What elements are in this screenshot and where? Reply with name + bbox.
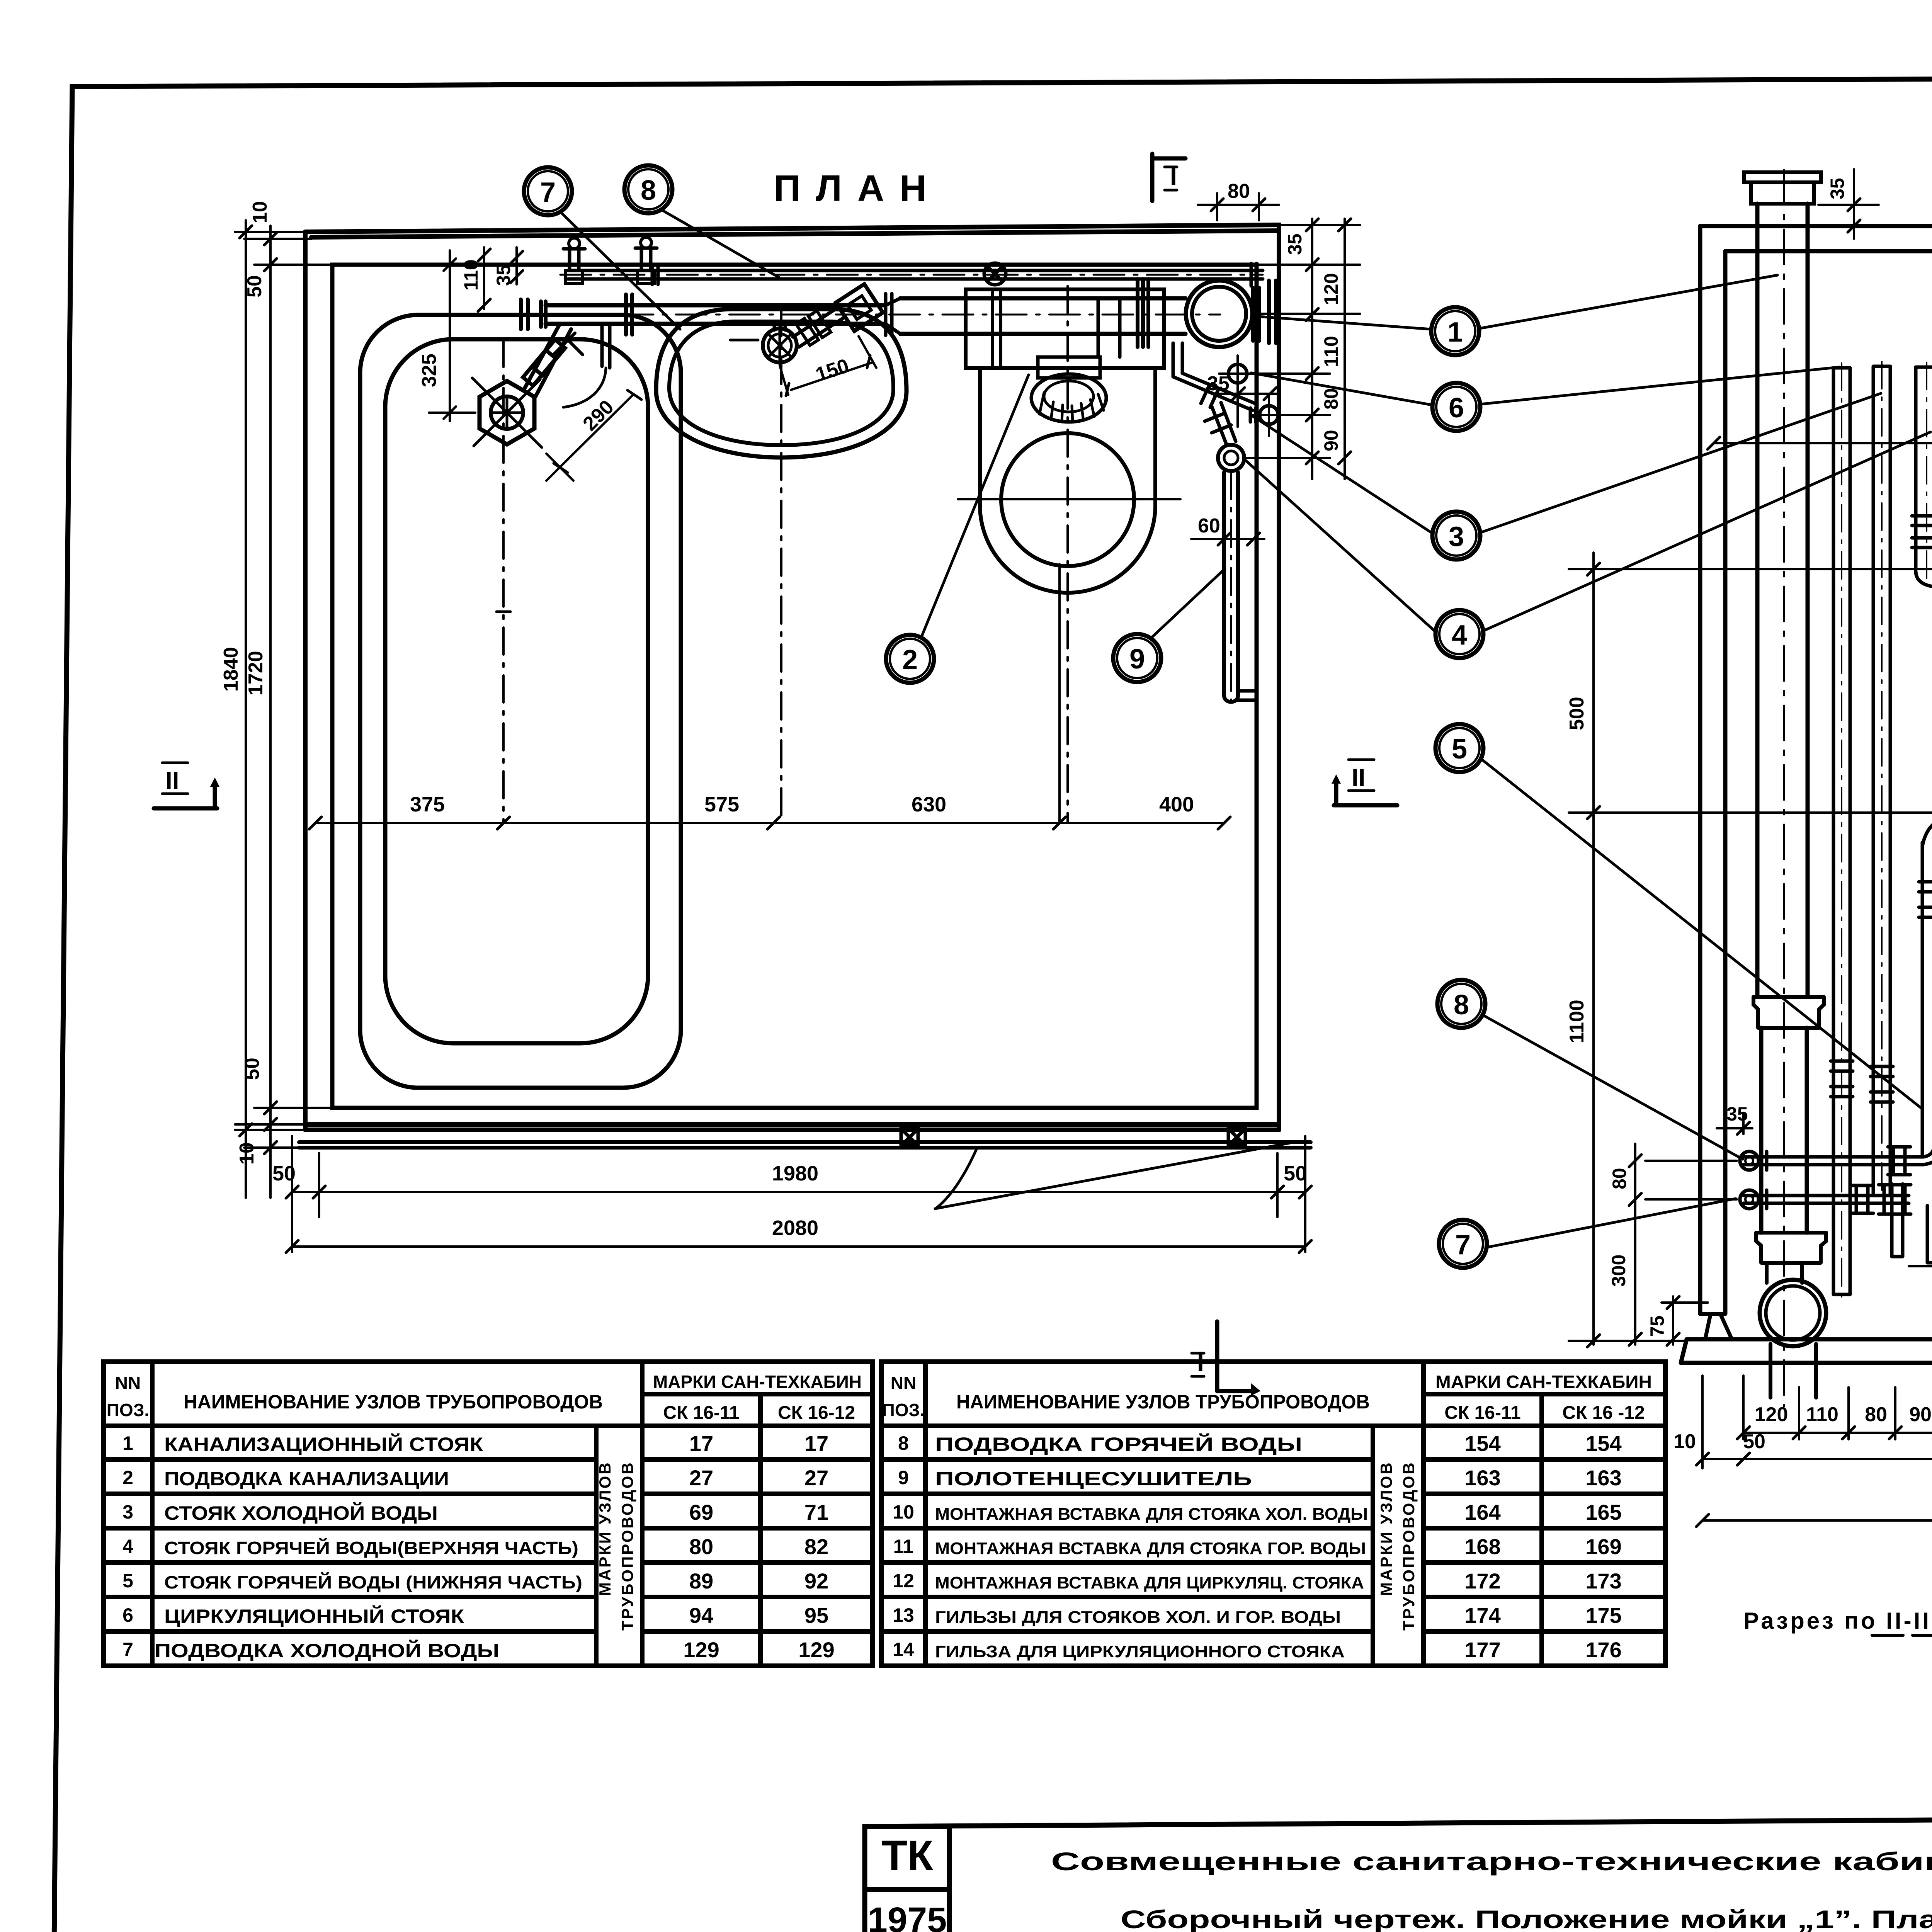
- plan bottom dim 2080: [292, 1245, 1305, 1248]
- svg-text:8: 8: [641, 175, 656, 206]
- stack below floor: [1770, 1344, 1816, 1398]
- svg-text:177: 177: [1464, 1638, 1500, 1662]
- callout circle 5: [1435, 724, 1483, 772]
- svg-text:12: 12: [893, 1570, 914, 1592]
- svg-text:17: 17: [804, 1431, 828, 1456]
- plan dim column right: extensions: [1245, 225, 1360, 458]
- sink mixer diagonal: [793, 308, 844, 347]
- svg-text:14: 14: [893, 1639, 914, 1660]
- svg-text:Совмещенные санитарно-техниче: Совмещенные санитарно-технические кабины…: [1051, 1847, 1932, 1876]
- lower supply pipe A: [1743, 1157, 1923, 1165]
- section bottom dims row3: [1702, 1519, 1932, 1522]
- canalization branch pipe (second run): [546, 305, 886, 324]
- section bottom dims row2: [1702, 1349, 1932, 1468]
- svg-text:МОНТАЖНАЯ ВСТАВКА ДЛЯ СТОЯКА Г: МОНТАЖНАЯ ВСТАВКА ДЛЯ СТОЯКА ГОР. ВОДЫ: [935, 1539, 1366, 1558]
- svg-text:II: II: [165, 767, 179, 794]
- riser connection bend (plan right): [1173, 343, 1182, 377]
- riser 3 (hot water): [1916, 367, 1932, 567]
- tall socket before stack: [1138, 279, 1148, 347]
- svg-text:50: 50: [272, 1162, 296, 1185]
- svg-text:ТРУБОПРОВОДОВ: ТРУБОПРОВОДОВ: [1400, 1461, 1418, 1631]
- stack lower bell: [1756, 1233, 1826, 1263]
- svg-text:90: 90: [1909, 1403, 1932, 1426]
- pipe to hot riser: [1173, 373, 1255, 410]
- svg-text:173: 173: [1585, 1569, 1621, 1593]
- callout circle 6: [1432, 383, 1480, 431]
- riser cross circle 1: [1228, 364, 1247, 383]
- sleeve below pipe B: [1892, 1184, 1903, 1257]
- canalization stack section: [1744, 172, 1821, 182]
- svg-text:80: 80: [1320, 388, 1342, 410]
- toilet bowl body: [980, 368, 1155, 593]
- plan anchor mark right: [1228, 1129, 1245, 1146]
- svg-text:71: 71: [804, 1500, 828, 1524]
- svg-text:4: 4: [122, 1536, 133, 1557]
- left wall base: [1700, 1314, 1732, 1339]
- svg-text:1: 1: [122, 1432, 133, 1454]
- callout circle 1: [1431, 307, 1479, 355]
- svg-text:50: 50: [241, 1058, 264, 1080]
- extensions top left: [235, 232, 332, 265]
- svg-text:ПОЛОТЕНЦЕСУШИТЕЛЬ: ПОЛОТЕНЦЕСУШИТЕЛЬ: [935, 1468, 1252, 1490]
- table headers left: [107, 1372, 862, 1631]
- svg-text:110: 110: [1320, 336, 1342, 367]
- sink outer: [656, 309, 906, 457]
- plan floor slab lines below cabin: [299, 1142, 1311, 1148]
- svg-text:СТОЯК ГОРЯЧЕЙ ВОДЫ(ВЕРХНЯЯ ЧАС: СТОЯК ГОРЯЧЕЙ ВОДЫ(ВЕРХНЯЯ ЧАСТЬ): [164, 1538, 578, 1558]
- svg-text:92: 92: [804, 1569, 828, 1593]
- svg-text:7: 7: [540, 177, 556, 208]
- bath mixer diagonal pipe: [524, 325, 571, 396]
- svg-text:120: 120: [1320, 273, 1342, 305]
- svg-text:ТК: ТК: [881, 1832, 934, 1879]
- svg-text:80: 80: [1609, 1168, 1630, 1189]
- riser 2 (circulation): [1873, 366, 1890, 1196]
- svg-text:1: 1: [1447, 317, 1463, 348]
- svg-text:2: 2: [902, 645, 918, 675]
- svg-text:МАРКИ УЗЛОВ: МАРКИ УЗЛОВ: [1377, 1461, 1395, 1596]
- dim 110 top-left: [483, 247, 485, 309]
- callout circle 9 plan: [1113, 634, 1161, 682]
- section bottom dims row1: [1743, 1376, 1932, 1439]
- lower supply pipe B: [1743, 1196, 1909, 1203]
- title block TK box: [865, 1827, 949, 1889]
- riser 3 lower part: [1922, 842, 1932, 1157]
- svg-text:129: 129: [683, 1638, 719, 1662]
- bathtub centerline: [502, 340, 505, 823]
- svg-text:163: 163: [1464, 1466, 1500, 1490]
- svg-text:NN: NN: [115, 1373, 141, 1393]
- left dim labels: [220, 201, 271, 1165]
- floor slab: [1681, 1339, 1932, 1363]
- svg-text:МАРКИ САН-ТЕХКАБИН: МАРКИ САН-ТЕХКАБИН: [1435, 1372, 1652, 1392]
- svg-text:165: 165: [1585, 1500, 1621, 1524]
- svg-text:300: 300: [1608, 1255, 1629, 1287]
- callout circle 3: [1432, 512, 1480, 560]
- svg-text:90: 90: [1320, 430, 1342, 451]
- svg-text:NN: NN: [891, 1373, 916, 1393]
- title block outline: [865, 1816, 1932, 1827]
- svg-text:7: 7: [122, 1639, 133, 1660]
- svg-text:МОНТАЖНАЯ ВСТАВКА ДЛЯ ЦИРКУЛЯЦ: МОНТАЖНАЯ ВСТАВКА ДЛЯ ЦИРКУЛЯЦ. СТОЯКА: [935, 1573, 1364, 1592]
- svg-text:ТРУБОПРОВОДОВ: ТРУБОПРОВОДОВ: [618, 1461, 636, 1631]
- dim 325: [449, 250, 451, 421]
- svg-text:ПОДВОДКА КАНАЛИЗАЦИИ: ПОДВОДКА КАНАЛИЗАЦИИ: [164, 1468, 449, 1490]
- svg-text:168: 168: [1464, 1534, 1500, 1559]
- svg-text:1840: 1840: [220, 647, 242, 692]
- taper bells before toilet: [886, 294, 900, 335]
- svg-text:11: 11: [893, 1536, 914, 1557]
- svg-text:120: 120: [1755, 1403, 1788, 1426]
- svg-text:35: 35: [1207, 372, 1230, 395]
- svg-text:110: 110: [460, 259, 482, 291]
- dim 500 / 1100 line: [1592, 553, 1595, 1345]
- callout circle 2: [886, 635, 934, 683]
- svg-text:КАНАЛИЗАЦИОННЫЙ СТОЯК: КАНАЛИЗАЦИОННЫЙ СТОЯК: [164, 1433, 483, 1455]
- riser 1 (cold water): [1833, 368, 1850, 1294]
- svg-text:4: 4: [1452, 620, 1467, 651]
- plan anchor mark left: [901, 1129, 918, 1146]
- svg-text:ЦИРКУЛЯЦИОННЫЙ СТОЯК: ЦИРКУЛЯЦИОННЫЙ СТОЯК: [164, 1605, 464, 1627]
- riser cross circle 2: [1250, 408, 1256, 422]
- toilet tank: [966, 289, 1164, 368]
- plan bottom dim 1980: [292, 1191, 1305, 1193]
- stack drain ring: [1760, 1280, 1826, 1346]
- svg-text:9: 9: [898, 1467, 909, 1488]
- note II underlines: [1872, 1634, 1932, 1637]
- svg-text:69: 69: [689, 1500, 713, 1524]
- svg-text:СК 16 -12: СК 16 -12: [1562, 1403, 1645, 1423]
- svg-text:17: 17: [689, 1431, 713, 1456]
- plan bottom dim line (fixtures): [315, 822, 1224, 824]
- table rows right: [893, 1431, 1622, 1662]
- svg-text:60: 60: [1198, 515, 1220, 537]
- svg-text:СТОЯК ГОРЯЧЕЙ ВОДЫ (НИЖНЯЯ ЧАС: СТОЯК ГОРЯЧЕЙ ВОДЫ (НИЖНЯЯ ЧАСТЬ): [164, 1572, 582, 1592]
- callout circle 7 section: [1439, 1220, 1487, 1268]
- svg-text:80: 80: [1228, 180, 1250, 202]
- plan cabin inner wall: [332, 265, 1257, 1108]
- bath mixer hex nut: [480, 381, 534, 444]
- svg-text:35: 35: [1726, 1103, 1748, 1125]
- hot water pipe run (top): [568, 270, 1263, 279]
- svg-text:27: 27: [804, 1466, 828, 1490]
- svg-text:6: 6: [1449, 393, 1464, 423]
- svg-text:МАРКИ САН-ТЕХКАБИН: МАРКИ САН-ТЕХКАБИН: [653, 1372, 862, 1392]
- svg-text:3: 3: [122, 1501, 133, 1523]
- plan dim line right inner: [1311, 219, 1313, 479]
- stack flanges right: [1253, 281, 1276, 343]
- svg-text:35: 35: [493, 264, 514, 286]
- svg-text:89: 89: [689, 1569, 713, 1593]
- elbow to towel pipe: [1212, 403, 1236, 444]
- bathtub inner bowl: [385, 339, 648, 1043]
- towel rail elbows: [1916, 567, 1932, 587]
- svg-text:500: 500: [1566, 697, 1588, 730]
- toilet cross lines: [958, 498, 1180, 500]
- bathtub center mark: [497, 611, 510, 613]
- dim 80 / 300: [1634, 1144, 1636, 1345]
- toilet flush drop: [1098, 298, 1120, 357]
- section mark I top: [1152, 154, 1185, 201]
- svg-text:1975: 1975: [868, 1900, 947, 1932]
- plan left dim lines: [245, 220, 247, 1198]
- svg-text:172: 172: [1464, 1569, 1500, 1593]
- section room walls: [1700, 226, 1932, 1314]
- svg-text:10: 10: [1673, 1430, 1696, 1453]
- plan break line under cabin: [935, 1143, 1290, 1209]
- svg-text:375: 375: [410, 793, 445, 816]
- svg-text:400: 400: [1159, 793, 1194, 816]
- towel rail pipe (plan): [1224, 472, 1238, 702]
- svg-text:27: 27: [689, 1466, 713, 1490]
- svg-text:169: 169: [1585, 1534, 1621, 1559]
- callout circle 4: [1435, 610, 1483, 658]
- toilet bowl rim: [1001, 433, 1134, 566]
- svg-text:325: 325: [418, 354, 440, 387]
- svg-text:ПОЗ.: ПОЗ.: [107, 1400, 149, 1420]
- svg-text:СК 16-11: СК 16-11: [1444, 1403, 1520, 1423]
- svg-text:82: 82: [804, 1534, 828, 1559]
- svg-text:13: 13: [893, 1604, 914, 1626]
- svg-text:1720: 1720: [245, 651, 267, 696]
- svg-text:5: 5: [122, 1570, 133, 1592]
- svg-text:ПОЗ.: ПОЗ.: [882, 1400, 925, 1420]
- svg-text:10: 10: [249, 201, 271, 223]
- sink trap tee: [774, 324, 785, 330]
- bath filler stub: [602, 324, 610, 368]
- plan cabin outer wall: [305, 225, 1279, 1130]
- svg-text:ПОДВОДКА ХОЛОДНОЙ ВОДЫ: ПОДВОДКА ХОЛОДНОЙ ВОДЫ: [155, 1639, 499, 1662]
- svg-text:9: 9: [1129, 644, 1145, 675]
- svg-text:ПОДВОДКА ГОРЯЧЕЙ ВОДЫ: ПОДВОДКА ГОРЯЧЕЙ ВОДЫ: [935, 1433, 1302, 1455]
- svg-text:154: 154: [1464, 1431, 1500, 1456]
- sink mixer body: [836, 284, 883, 331]
- left table frame: [104, 1362, 872, 1666]
- joints on branch pipe: [626, 294, 632, 335]
- stack bell joint: [1753, 997, 1824, 1028]
- section mark I bottom: [1217, 1321, 1254, 1391]
- svg-text:МОНТАЖНАЯ ВСТАВКА ДЛЯ СТОЯКА Х: МОНТАЖНАЯ ВСТАВКА ДЛЯ СТОЯКА ХОЛ. ВОДЫ: [935, 1505, 1368, 1524]
- table headers right: [882, 1372, 1652, 1631]
- svg-text:ГИЛЬЗА ДЛЯ ЦИРКУЛЯЦИОННОГО СТО: ГИЛЬЗА ДЛЯ ЦИРКУЛЯЦИОННОГО СТОЯКА: [935, 1642, 1345, 1661]
- slashes on left dims: [240, 226, 277, 1154]
- svg-text:94: 94: [689, 1603, 713, 1628]
- svg-text:154: 154: [1585, 1431, 1621, 1456]
- svg-text:10: 10: [236, 1142, 258, 1165]
- callout circle 7: [524, 167, 572, 215]
- svg-text:1100: 1100: [1566, 1000, 1588, 1043]
- svg-text:СК 16-12: СК 16-12: [778, 1403, 855, 1423]
- dim 950: [1714, 442, 1932, 444]
- table rows left: [122, 1431, 835, 1662]
- svg-text:95: 95: [804, 1603, 828, 1628]
- svg-text:МАРКИ УЗЛОВ: МАРКИ УЗЛОВ: [596, 1461, 614, 1596]
- svg-text:80: 80: [689, 1534, 713, 1559]
- tap stub right: [635, 248, 657, 270]
- pipe joints on hot run: [652, 264, 1257, 286]
- svg-text:7: 7: [1455, 1230, 1471, 1260]
- dim 150 / 230: [1909, 1259, 1932, 1345]
- dim 290 (bath mixer): [560, 394, 634, 467]
- svg-text:129: 129: [798, 1638, 834, 1662]
- sleeve below pipe A: [1927, 1206, 1932, 1263]
- toilet centerline: [1066, 286, 1069, 823]
- bell joint at left end: [521, 299, 546, 329]
- svg-text:10: 10: [893, 1501, 914, 1523]
- svg-text:8: 8: [1454, 990, 1469, 1020]
- extensions bottom left: [235, 1108, 332, 1148]
- svg-text:575: 575: [704, 793, 739, 816]
- towel rail circle (plan): [1218, 445, 1244, 471]
- sink inner: [669, 321, 893, 445]
- svg-text:176: 176: [1585, 1638, 1621, 1662]
- svg-text:35: 35: [1827, 178, 1848, 199]
- svg-text:ПЛАН: ПЛАН: [774, 168, 942, 209]
- plan right dim labels: [1284, 233, 1342, 451]
- callout circle 8: [624, 165, 672, 213]
- valve on hot run: [984, 263, 1006, 285]
- bathtub outer rim: [360, 315, 681, 1088]
- svg-text:75: 75: [1646, 1315, 1668, 1337]
- dim 75: [1662, 1296, 1708, 1345]
- svg-text:630: 630: [912, 793, 946, 816]
- svg-text:2: 2: [122, 1467, 133, 1488]
- svg-text:35: 35: [1284, 233, 1306, 255]
- svg-text:5: 5: [1452, 734, 1467, 765]
- dim 150 (sink mixer): [780, 336, 876, 395]
- svg-text:8: 8: [898, 1432, 909, 1454]
- title block 1975 box: [865, 1889, 949, 1932]
- svg-text:Разрез по II-II смотри лис: Разрез по II-II смотри лист N 16.: [1743, 1608, 1932, 1634]
- svg-text:174: 174: [1464, 1603, 1500, 1628]
- svg-text:II: II: [1352, 764, 1366, 791]
- svg-text:110: 110: [1806, 1403, 1838, 1426]
- svg-text:6: 6: [122, 1604, 133, 1626]
- svg-text:СК 16-11: СК 16-11: [663, 1403, 739, 1423]
- sink centerline: [780, 309, 782, 823]
- svg-text:163: 163: [1585, 1466, 1621, 1490]
- canalization stack (plan): [1186, 281, 1252, 347]
- svg-text:СТОЯК ХОЛОДНОЙ ВОДЫ: СТОЯК ХОЛОДНОЙ ВОДЫ: [164, 1502, 438, 1524]
- right table frame: [881, 1362, 1665, 1666]
- tap stub left: [563, 249, 585, 270]
- svg-text:164: 164: [1464, 1500, 1500, 1524]
- svg-text:Сборочный чертеж. Положение м: Сборочный чертеж. Положение мойки „1”. П…: [1121, 1905, 1932, 1932]
- callout circle 8 section: [1437, 980, 1485, 1028]
- svg-text:50: 50: [1743, 1430, 1765, 1453]
- svg-text:50: 50: [243, 275, 266, 298]
- svg-text:50: 50: [1284, 1162, 1307, 1185]
- toilet flush bell: [1038, 357, 1100, 378]
- dim 35 top-left: [515, 247, 518, 284]
- towel bracket: [1238, 684, 1257, 707]
- svg-text:1980: 1980: [772, 1162, 818, 1185]
- svg-text:ГИЛЬЗЫ ДЛЯ СТОЯКОВ ХОЛ. И ГОР.: ГИЛЬЗЫ ДЛЯ СТОЯКОВ ХОЛ. И ГОР. ВОДЫ: [935, 1608, 1341, 1627]
- svg-text:НАИМЕНОВАНИЕ УЗЛОВ ТРУБОПРОВОД: НАИМЕНОВАНИЕ УЗЛОВ ТРУБОПРОВОДОВ: [956, 1391, 1370, 1413]
- svg-text:80: 80: [1865, 1403, 1887, 1426]
- svg-text:3: 3: [1449, 521, 1464, 552]
- svg-text:НАИМЕНОВАНИЕ УЗЛОВ ТРУБОПРОВОД: НАИМЕНОВАНИЕ УЗЛОВ ТРУБОПРОВОДОВ: [184, 1391, 603, 1413]
- svg-text:2080: 2080: [772, 1216, 818, 1240]
- svg-text:175: 175: [1585, 1603, 1621, 1628]
